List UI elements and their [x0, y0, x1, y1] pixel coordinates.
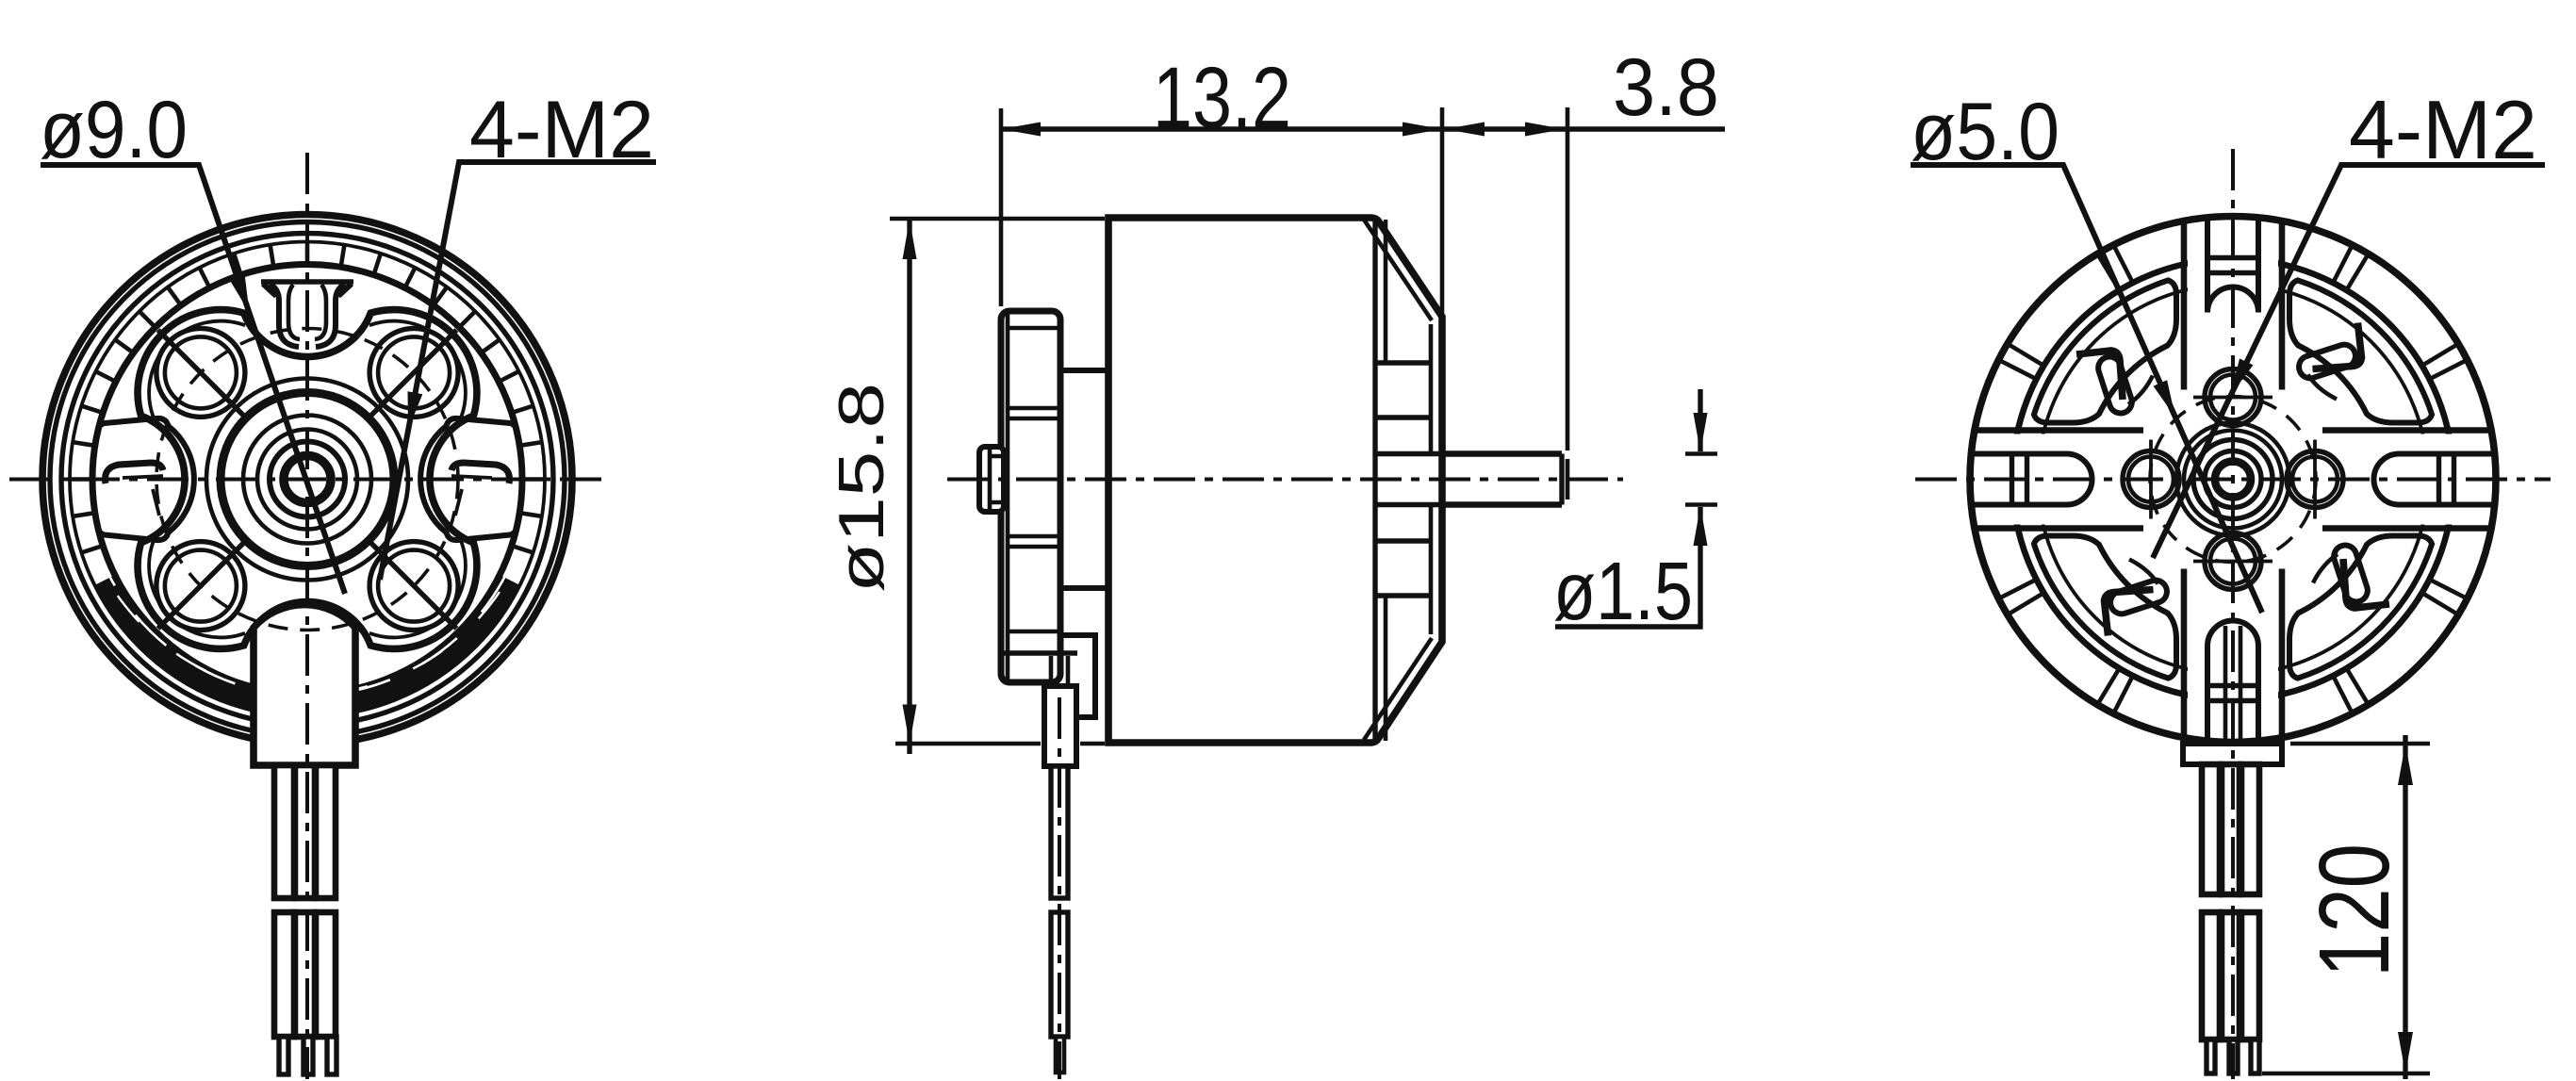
- dim dia1.5 arrows: [1694, 413, 1708, 452]
- shaft boss lines: [1375, 454, 1442, 505]
- svg-text:ø15.8: ø15.8: [826, 383, 897, 593]
- stator pocket west: [92, 418, 194, 540]
- front wires upper: [274, 765, 294, 898]
- stator pocket SE: [2289, 536, 2432, 679]
- leader 4-M2 front: [380, 162, 656, 580]
- wire lower segment: [1051, 912, 1068, 1037]
- dim 120 extension top: [2290, 742, 2430, 746]
- horizontal centerline: [947, 478, 1623, 482]
- rotor ring inner circle: [70, 242, 545, 717]
- arm to sleeve connectors: [2207, 726, 2258, 744]
- wire sleeve front with dome top: [254, 605, 355, 765]
- bolt circle dia9 dashed: [156, 329, 458, 631]
- stator tab ticks: [2000, 247, 2466, 712]
- bolt circle dia5 dashed: [2150, 397, 2316, 563]
- dim 13.2 arrows: [1001, 123, 1041, 137]
- dim 13.2/3.8 extension shared: [1440, 107, 1445, 313]
- magnet band dark bottom: [106, 582, 509, 706]
- dim dia15.8 arrows: [903, 220, 917, 259]
- front wires lower: [274, 912, 294, 1037]
- screw hole back W: [2123, 440, 2179, 519]
- hub circle r40: [270, 442, 345, 517]
- wires inside bottom arm channel: [2225, 626, 2240, 744]
- rotor clover plate: [138, 310, 477, 649]
- back wires upper: [2202, 764, 2220, 894]
- shaft bore circle: [284, 456, 331, 503]
- wire above sleeve: [1051, 656, 1068, 686]
- screw hole M2 top-left: [156, 328, 245, 417]
- mount arm S: [2184, 569, 2282, 742]
- screw hole M2 bottom-right: [369, 542, 458, 631]
- screw hole M2 top-right: [369, 328, 458, 417]
- stator inner circle: [2038, 285, 2428, 675]
- dim dia15.8 extension bottom: [895, 742, 1105, 746]
- vertical centerline back: [2231, 149, 2235, 1079]
- dim 3.8 line: [1442, 126, 1725, 131]
- rotor ring circle: [61, 234, 553, 726]
- vertical centerline: [305, 153, 309, 1079]
- leader 4-M2 back: [2153, 165, 2545, 558]
- wire guard block: [1060, 635, 1095, 717]
- stator pocket NE: [2289, 280, 2432, 422]
- dim 3.8 extension right: [1566, 107, 1570, 450]
- magnet ladder ticks: [70, 242, 545, 706]
- rotor lobe inner edge arcs: [149, 321, 466, 638]
- motor body outline: [1108, 218, 1442, 743]
- dim 120 line: [2403, 735, 2407, 1079]
- svg-text:ø1.5: ø1.5: [1553, 546, 1693, 637]
- hub circle r68: [243, 416, 371, 544]
- hub circle r107: [206, 379, 408, 581]
- back wires lower: [2202, 912, 2220, 1040]
- step block bottom: [1060, 585, 1108, 591]
- bell chamfer inner line top: [1364, 220, 1432, 320]
- bell outer circle: [42, 215, 572, 745]
- key slot feature top: [261, 282, 353, 347]
- screw hole back E: [2287, 440, 2343, 519]
- leader dia5.0: [1911, 165, 2262, 613]
- shaft end chamfer: [1566, 459, 1570, 500]
- dim dia1.5 leader line: [1555, 389, 1700, 627]
- hub circle r52: [2184, 431, 2282, 529]
- dim 13.2 extension left: [999, 108, 1004, 306]
- bell/stator junction line: [1372, 218, 1377, 743]
- mount arm E: [2322, 431, 2494, 529]
- dim dia1.5 edge ticks: [1685, 454, 1717, 505]
- shaft: [1442, 454, 1562, 505]
- wire tip: [1056, 1037, 1064, 1073]
- hub circle r42: [2193, 440, 2272, 519]
- step block top: [1060, 368, 1108, 373]
- shaft end face: [1559, 454, 1564, 505]
- flange inner face line: [1006, 314, 1010, 680]
- screw hole back N: [2193, 369, 2272, 426]
- dim 120 arrows: [2398, 744, 2413, 785]
- stator lamination circle: [2012, 259, 2453, 700]
- mount arm W: [1972, 431, 2143, 529]
- svg-text:ø9.0: ø9.0: [40, 85, 188, 175]
- flange section lines: [1008, 328, 1060, 631]
- stator outer circle: [92, 265, 522, 695]
- wire upper segment: [1051, 766, 1068, 898]
- hub circle r53: [257, 430, 357, 530]
- hub circle r30: [2205, 451, 2261, 508]
- bell outer circle back: [1970, 217, 2496, 743]
- horizontal centerline: [9, 478, 608, 482]
- screw hole back S: [2193, 533, 2272, 590]
- svg-text:3.8: 3.8: [1613, 42, 1719, 133]
- bell chamfer inner line bottom: [1364, 638, 1432, 740]
- wire centerline: [1058, 697, 1061, 1079]
- stator pocket NW: [2034, 280, 2176, 422]
- wire sleeve back: [2183, 744, 2282, 764]
- magnet section top: [1375, 363, 1431, 418]
- bell rim circle: [50, 222, 565, 737]
- front shaft stub: [979, 447, 1004, 512]
- mount flange plate: [1001, 311, 1060, 682]
- front wire tips: [279, 1037, 288, 1074]
- bell inner rim segments: [1429, 324, 1434, 634]
- dim 3.8 arrows: [1445, 123, 1485, 137]
- wire sleeve: [1044, 686, 1076, 766]
- bell inner wall bottom: [1384, 596, 1388, 741]
- horizontal centerline back: [1915, 478, 2551, 482]
- magnet section bottom: [1375, 541, 1431, 596]
- hub boss circle r92: [221, 393, 394, 566]
- leader dia9.0: [41, 165, 345, 594]
- stator pocket SW: [2034, 536, 2176, 679]
- bell inner wall top: [1384, 220, 1388, 363]
- dim 120 extension bottom: [2262, 1072, 2430, 1076]
- dim 13.2 line: [1001, 126, 1442, 131]
- dim dia15.8 line: [907, 220, 911, 754]
- dim dia15.8 extension top: [890, 217, 1105, 221]
- back wire tips: [2207, 1040, 2215, 1073]
- stub inner plate: [990, 448, 1004, 511]
- shaft circle back: [2215, 462, 2251, 498]
- hub circle r60: [2176, 423, 2289, 536]
- screw hole M2 bottom-left: [156, 542, 245, 631]
- mount arm N: [2184, 218, 2282, 390]
- flange bottom step line: [1003, 650, 1077, 655]
- stator pocket east: [420, 418, 522, 540]
- svg-text:120: 120: [2299, 844, 2410, 977]
